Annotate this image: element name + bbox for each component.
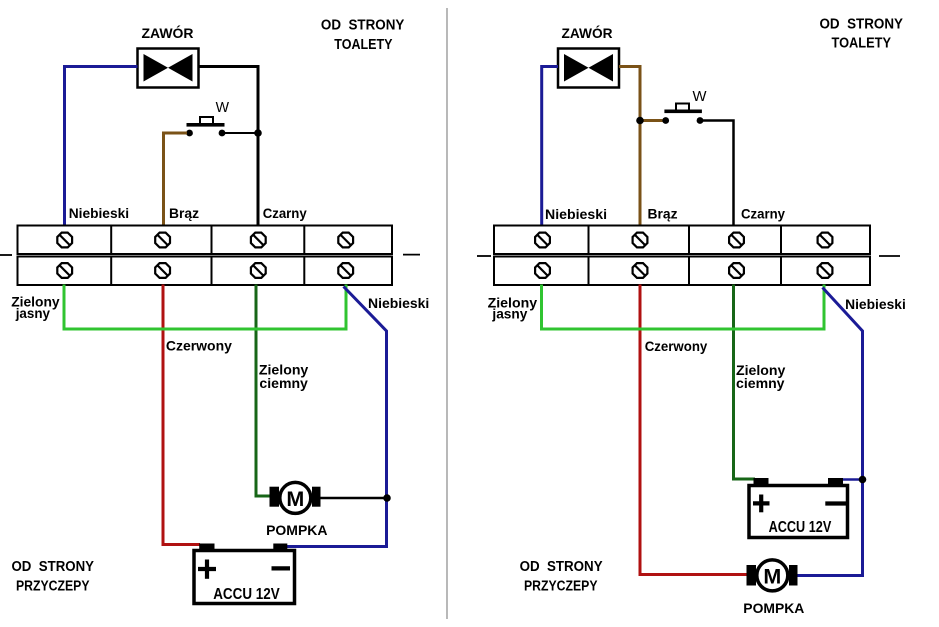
svg-text:jasny: jasny (491, 306, 527, 322)
wire brown: valve right down to terminal 2 with switch tap (right) (619, 67, 640, 227)
terminal block (left): lower row (18, 257, 393, 286)
wire label Zielony jasny (right bottom) (488, 294, 538, 321)
dashed continuation marks left and right of terminal block (right) (477, 255, 491, 257)
svg-text:M: M (286, 487, 304, 511)
svg-text:ZAWÓR: ZAWÓR (562, 24, 613, 41)
terminal block (right): lower row (494, 257, 870, 286)
wire light green: terminal 1 to terminal 4 (left) (64, 285, 346, 330)
battery ACCU 12V (left) (194, 544, 295, 604)
label OD STRONY TOALETY (right) (820, 16, 904, 51)
svg-text:jasny: jasny (15, 305, 50, 321)
terminal block (right): cell dividers (589, 226, 782, 286)
wire blue: valve left to terminal 1 (right) (542, 67, 558, 227)
switch W (right): contact dots (662, 117, 669, 124)
wire blue: terminal 4 diagonal down to battery minus (left) (283, 287, 387, 547)
wire label Zielony ciemny (right) (736, 362, 786, 391)
svg-text:Czerwony: Czerwony (166, 338, 232, 354)
wire brown: junction stub to switch left contact (right) (640, 119, 663, 122)
wire black: switch right contact down to terminal 3 (right) (700, 121, 734, 227)
svg-text:W: W (693, 88, 708, 105)
svg-text:Niebieski: Niebieski (845, 296, 906, 312)
svg-text:OD STRONY: OD STRONY (321, 17, 405, 33)
switch W (left): button body (187, 117, 225, 127)
wire black: pump right terminal to blue wire junction (left) (321, 497, 388, 500)
svg-text:OD STRONY: OD STRONY (820, 16, 904, 32)
battery ACCU 12V (right) (749, 478, 848, 538)
panel divider line between left and right diagrams (446, 8, 448, 619)
wire red: terminal 2 to pump left terminal (right) (640, 285, 747, 575)
switch W (right): button body (664, 104, 702, 114)
svg-text:ZAWÓR: ZAWÓR (142, 24, 194, 41)
switch W (left): contact dots (186, 130, 193, 137)
svg-text:PRZYCZEPY: PRZYCZEPY (524, 578, 598, 594)
wire brown: switch left contact to terminal 2 (left) (164, 133, 188, 226)
svg-text:ACCU 12V: ACCU 12V (769, 519, 832, 536)
wire blue: junction stub to battery minus (right) (836, 478, 863, 481)
wire label Zielony jasny (left bottom) (11, 293, 60, 321)
wire dark green: terminal 3 to pump left terminal (left) (256, 285, 271, 497)
wire blue: terminal 4 diagonal down to pump right terminal (right) (797, 288, 863, 576)
svg-text:Czarny: Czarny (263, 205, 307, 221)
wire black: valve right down to terminal 3 (left) (199, 67, 259, 227)
svg-text:OD STRONY: OD STRONY (12, 559, 95, 575)
wire dark green: terminal 3 to battery plus (right) (734, 285, 756, 480)
svg-text:OD STRONY: OD STRONY (520, 559, 603, 575)
terminal block (left): cell dividers (111, 226, 304, 286)
svg-text:Brąz: Brąz (648, 206, 678, 222)
svg-text:Czarny: Czarny (741, 206, 785, 222)
svg-text:PRZYCZEPY: PRZYCZEPY (16, 578, 90, 594)
wire blue: valve left to terminal 1 (left) (65, 67, 138, 227)
pump motor POMPKA (right) (747, 560, 798, 591)
junction dot on blue wire (right) (859, 476, 867, 484)
junction dot black wire on blue wire (left) (383, 494, 391, 502)
svg-text:Niebieski: Niebieski (69, 205, 129, 221)
wire black: switch right contact to junction on valve wire (left) (222, 132, 258, 134)
wire label Zielony ciemny (left) (259, 362, 309, 391)
terminal screws (left block, 8x octagon with slash) (57, 233, 353, 278)
svg-text:ACCU 12V: ACCU 12V (213, 586, 280, 603)
terminal block (left): upper row (18, 226, 393, 255)
svg-text:TOALETY: TOALETY (334, 37, 392, 53)
pump motor POMPKA (left) (270, 482, 321, 513)
svg-text:Niebieski: Niebieski (545, 206, 607, 222)
junction dot on black wire (left) (254, 129, 262, 137)
svg-text:POMPKA: POMPKA (266, 522, 327, 538)
valve ZAWOR symbol (right) (558, 49, 619, 88)
svg-text:W: W (216, 99, 230, 116)
svg-text:Niebieski: Niebieski (368, 295, 429, 311)
valve ZAWOR symbol (left) (138, 49, 199, 88)
svg-text:M: M (763, 564, 781, 588)
terminal screws (right block, 8x octagon with slash) (535, 233, 832, 278)
svg-text:ciemny: ciemny (736, 375, 785, 391)
label OD STRONY TOALETY (left) (321, 17, 405, 52)
junction dot on brown wire (right) (636, 117, 644, 125)
label OD STRONY PRZYCZEPY (right) (520, 559, 603, 594)
wire light green: terminal 1 to terminal 4 (right) (542, 285, 825, 330)
svg-text:POMPKA: POMPKA (743, 600, 804, 616)
svg-text:Czerwony: Czerwony (645, 338, 708, 354)
label OD STRONY PRZYCZEPY (left) (12, 559, 95, 594)
svg-text:Brąz: Brąz (169, 205, 199, 221)
svg-text:TOALETY: TOALETY (832, 36, 892, 52)
wire red: terminal 2 to battery plus (left) (163, 285, 200, 545)
dashed continuation marks left and right of terminal block (left) (0, 254, 12, 256)
terminal block (right): upper row (494, 226, 870, 255)
svg-text:ciemny: ciemny (259, 375, 308, 391)
